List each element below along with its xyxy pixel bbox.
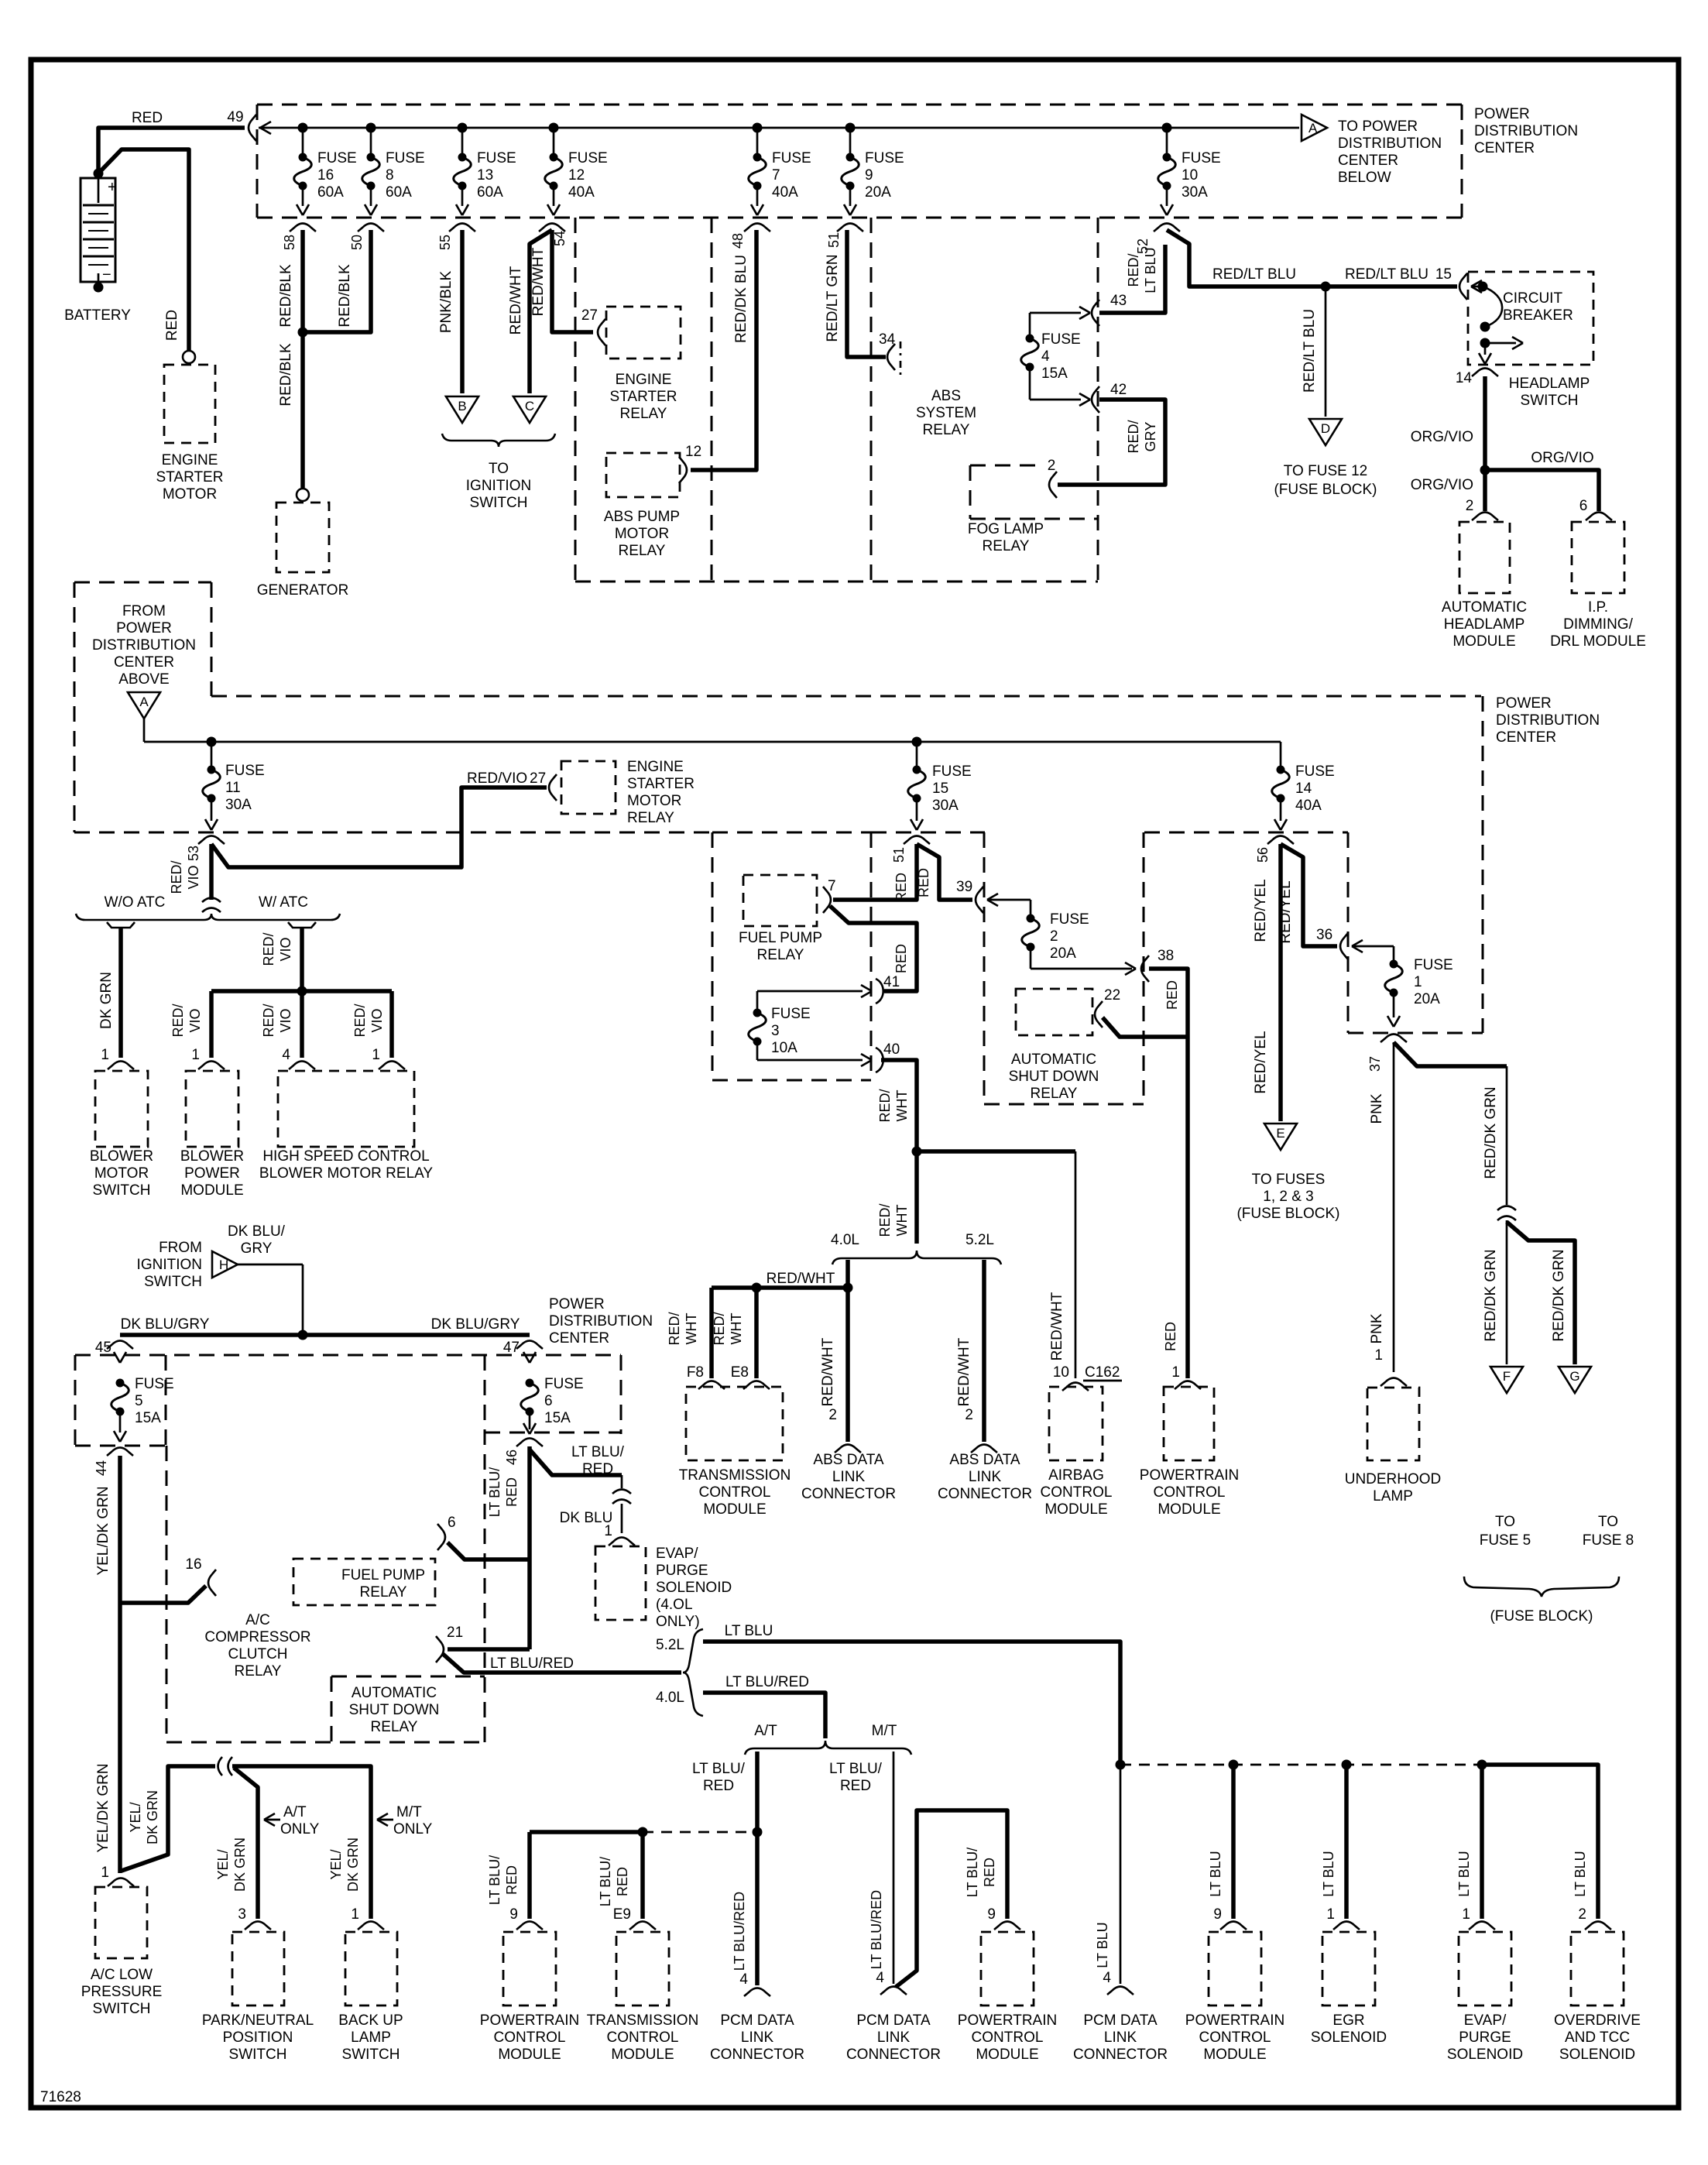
svg-text:M/T: M/T [872,1723,897,1739]
svg-text:HIGH SPEED CONTROL: HIGH SPEED CONTROL [262,1148,429,1165]
svg-text:LT BLU/RED: LT BLU/RED [869,1890,884,1969]
fuse 9 20A [849,128,852,155]
brace W/O ATC - W/ ATC split [76,914,340,920]
svg-text:15A: 15A [1041,365,1068,382]
svg-text:RED/YEL: RED/YEL [1253,1031,1269,1093]
svg-text:SOLENOID: SOLENOID [656,1580,732,1596]
wire LT BLU/RED to PCM data link connector [755,1832,760,1985]
EGR solenoid box [1322,1932,1375,2005]
wire 38 RED [1149,969,1188,1037]
svg-text:30A: 30A [225,797,252,813]
wire DK BLU/GRY from H [238,1264,303,1266]
wire 53 RED/VIO down to ATC split [209,844,214,900]
battery [81,178,115,282]
svg-text:2: 2 [1048,458,1056,474]
svg-text:CONTROL: CONTROL [699,1484,771,1501]
wire 56 RED/YEL to fuse block [1278,844,1283,1121]
node on bus at fuse 13 [458,123,468,133]
node fuse 15 tap [912,737,922,747]
svg-text:51: 51 [891,847,907,863]
svg-text:RED/YEL: RED/YEL [1253,879,1269,942]
svg-text:FUSE: FUSE [568,150,608,166]
svg-text:A: A [1308,121,1318,136]
wire RED/WHT down to engine split [914,1151,919,1244]
svg-text:TO FUSE 12: TO FUSE 12 [1284,463,1367,479]
svg-text:BATTERY: BATTERY [64,307,131,324]
svg-text:CONNECTOR: CONNECTOR [938,1486,1032,1502]
svg-text:15: 15 [1435,266,1452,283]
svg-text:PCM DATA: PCM DATA [1083,2012,1158,2029]
svg-text:CENTER: CENTER [549,1330,609,1347]
svg-text:RELAY: RELAY [620,406,667,422]
blower motor switch box [95,1071,148,1147]
wire 40 RED/WHT down [881,1060,917,1151]
power distribution center box (top) [257,104,1462,106]
svg-text:FOG LAMP: FOG LAMP [968,521,1044,537]
svg-text:FUEL PUMP: FUEL PUMP [739,930,822,946]
svg-text:DISTRIBUTION: DISTRIBUTION [1474,123,1578,139]
connector 15 [1459,273,1467,300]
svg-text:IGNITION: IGNITION [137,1257,202,1273]
connector 51 ASD relay [904,836,930,845]
svg-text:MODULE: MODULE [180,1182,243,1199]
fuse 1 20A [1390,960,1398,969]
svg-text:ORG/VIO: ORG/VIO [1411,477,1473,493]
inline connector DK BLU [612,1490,631,1494]
svg-text:WHT: WHT [894,1090,910,1122]
node on bus at fuse 8 [366,123,376,133]
label M/T ONLY with arrow [377,1813,388,1820]
fuse 6 15A [526,1379,534,1388]
node RED/WHT distribution [912,1147,922,1157]
svg-text:RED/DK GRN: RED/DK GRN [1483,1249,1499,1341]
svg-text:ENGINE: ENGINE [616,372,672,388]
svg-text:FUEL PUMP: FUEL PUMP [341,1567,425,1583]
wire LT BLU/RED to evap purge solenoid [530,1450,622,1475]
svg-text:PCM DATA: PCM DATA [720,2012,794,2029]
powertrain control module box (bottom left) [503,1932,556,2005]
wire YEL/DK GRN to park/neutral switch [234,1768,258,1919]
svg-text:2: 2 [828,1407,837,1423]
svg-text:15A: 15A [135,1410,161,1426]
svg-text:POWER: POWER [184,1165,240,1182]
svg-text:FUSE: FUSE [1182,150,1221,166]
fuse 12 40A [553,128,555,155]
svg-text:COMPRESSOR: COMPRESSOR [204,1629,310,1645]
svg-text:4: 4 [876,1970,884,1986]
svg-text:LT BLU/: LT BLU/ [965,1848,980,1897]
svg-text:EGR: EGR [1332,2012,1364,2029]
svg-text:RED/LT BLU: RED/LT BLU [1345,266,1428,283]
powertrain control module box (bottom middle) [981,1932,1034,2005]
svg-text:9: 9 [509,1906,518,1923]
svg-text:D: D [1321,421,1330,436]
svg-text:TRANSMISSION: TRANSMISSION [587,2012,699,2029]
svg-text:27: 27 [581,307,598,324]
svg-text:RED/WHT: RED/WHT [956,1337,972,1406]
battery positive node [94,169,104,179]
svg-text:ORG/VIO: ORG/VIO [1411,429,1473,445]
wire RED/WHT to TCM F8 [709,1288,714,1378]
svg-text:27: 27 [530,770,546,787]
fuse 15 30A [916,742,918,767]
svg-text:20A: 20A [1414,991,1440,1007]
triangle G [1559,1367,1591,1393]
svg-text:RELAY: RELAY [1031,1086,1078,1102]
wire RED/WHT 5.2L branch to abs data link connector [982,1260,986,1442]
overdrive and TCC solenoid box [1571,1932,1624,2005]
wire PNK to underhood lamp [1393,1042,1395,1372]
svg-text:MODULE: MODULE [1452,633,1515,650]
blower power module box [186,1071,238,1147]
node TCM link [638,1827,648,1837]
svg-text:42: 42 [1110,382,1127,398]
svg-text:WHT: WHT [684,1313,699,1345]
svg-text:BACK UP: BACK UP [338,2012,403,2029]
svg-text:RELAY: RELAY [619,543,666,559]
svg-text:RED/BLK: RED/BLK [337,264,353,328]
connector 38 [1125,962,1136,969]
svg-text:AUTOMATIC: AUTOMATIC [1442,599,1527,616]
svg-text:RED: RED [504,1865,520,1895]
svg-text:16: 16 [185,1556,201,1573]
svg-text:CONNECTOR: CONNECTOR [710,2047,804,2063]
svg-text:SHUT DOWN: SHUT DOWN [1009,1069,1099,1085]
svg-text:5.2L: 5.2L [965,1232,994,1248]
svg-text:DISTRIBUTION: DISTRIBUTION [92,637,196,654]
svg-text:7: 7 [828,878,836,894]
svg-text:FUSE: FUSE [386,150,425,166]
svg-text:40A: 40A [1295,798,1322,814]
wire LT BLU/RED 4.0L [703,1693,825,1738]
fuel pump relay box (lower) [293,1559,435,1605]
inline connector YEL/DK GRN [218,1757,223,1776]
svg-text:ENGINE: ENGINE [162,452,218,468]
connector below fuse 9 [837,224,863,232]
connector 46 [516,1439,543,1447]
svg-text:9: 9 [1213,1906,1222,1923]
node on bus at fuse 9 [845,123,856,133]
svg-text:MOTOR: MOTOR [615,526,669,542]
svg-text:20A: 20A [865,184,891,201]
engine starter motor relay box [561,761,616,814]
svg-text:POWERTRAIN: POWERTRAIN [480,2012,579,2029]
svg-text:CONTROL: CONTROL [1041,1484,1113,1501]
fuse 7 40A [756,128,759,155]
svg-text:SWITCH: SWITCH [1521,393,1579,409]
svg-text:54: 54 [552,231,568,246]
svg-text:4: 4 [1041,348,1050,365]
svg-text:FUSE: FUSE [1295,763,1335,780]
triangle B [446,396,478,423]
svg-text:(FUSE BLOCK): (FUSE BLOCK) [1274,482,1377,498]
svg-text:11: 11 [225,780,241,796]
wire LT BLU to powertrain control module 9 [1231,1765,1236,1919]
svg-text:E: E [1276,1126,1284,1141]
svg-text:FUSE: FUSE [477,150,516,166]
svg-text:RED/: RED/ [261,932,276,966]
ASD relay coil box [1016,989,1092,1035]
svg-text:ABS DATA: ABS DATA [949,1452,1020,1468]
wire to fuse 1 [1352,945,1394,948]
svg-text:22: 22 [1104,987,1120,1004]
svg-text:A/T: A/T [283,1804,307,1820]
svg-text:LT BLU: LT BLU [1208,1851,1223,1896]
svg-text:16: 16 [317,167,334,184]
fuse 3 10A circuit [757,990,863,993]
svg-text:LT BLU/: LT BLU/ [487,1467,502,1517]
svg-text:5: 5 [135,1393,143,1409]
svg-text:RED/DK BLU: RED/DK BLU [733,255,749,343]
svg-text:ABOVE: ABOVE [118,671,169,688]
svg-text:MODULE: MODULE [1203,2047,1266,2063]
svg-text:YEL/: YEL/ [128,1802,143,1832]
svg-text:FUSE: FUSE [317,150,357,166]
svg-text:LINK: LINK [1104,2029,1137,2046]
svg-text:FUSE: FUSE [135,1376,174,1392]
svg-text:A: A [139,695,149,709]
svg-text:49: 49 [227,109,243,125]
svg-text:BLOWER: BLOWER [180,1148,244,1165]
wire from fuel pump relay 7 to connector 41 [830,906,917,991]
inline connector RED/DK GRN [1497,1206,1516,1211]
svg-text:RED/DK GRN: RED/DK GRN [1483,1086,1499,1179]
wire to A/C compressor clutch relay 16 [120,1586,206,1603]
svg-text:CONTROL: CONTROL [1154,1484,1226,1501]
svg-text:IGNITION: IGNITION [466,478,531,494]
triangle connector A to power distribution center below [1302,115,1327,141]
park/neutral position switch box [232,1932,284,2005]
svg-text:MODULE: MODULE [1044,1501,1107,1518]
svg-text:TO POWER: TO POWER [1338,118,1418,135]
svg-text:RELAY: RELAY [371,1719,418,1735]
svg-text:ABS PUMP: ABS PUMP [604,509,680,525]
svg-text:ONLY): ONLY) [656,1614,700,1630]
fuse 5 15A [116,1379,125,1388]
svg-text:RED/LT GRN: RED/LT GRN [825,254,841,341]
wire 43 RED/LT BLU [1099,245,1165,313]
svg-text:9: 9 [865,167,873,184]
svg-text:1: 1 [604,1523,612,1539]
svg-text:AUTOMATIC: AUTOMATIC [352,1685,437,1701]
svg-text:RED: RED [582,1461,613,1477]
svg-text:CIRCUIT: CIRCUIT [1503,290,1562,307]
svg-text:LAMP: LAMP [1373,1488,1413,1505]
svg-text:RED: RED [916,868,931,897]
svg-text:PNK: PNK [1369,1093,1385,1124]
svg-text:4.0L: 4.0L [831,1232,859,1248]
svg-text:14: 14 [1295,781,1312,797]
svg-text:SYSTEM: SYSTEM [916,405,976,421]
svg-text:B: B [458,399,466,413]
fuse 8 60A [370,128,372,155]
triangle A from above [128,692,160,719]
svg-text:A/C: A/C [245,1612,270,1628]
svg-text:LINK: LINK [969,1469,1002,1485]
svg-text:RED: RED [893,873,909,902]
svg-text:E9: E9 [613,1906,631,1923]
svg-text:RED/: RED/ [667,1312,682,1345]
svg-text:FROM: FROM [122,603,166,619]
wire to connector 43 [1030,312,1081,314]
svg-text:DRL MODULE: DRL MODULE [1550,633,1646,650]
svg-text:RED/: RED/ [877,1203,893,1237]
svg-text:39: 39 [956,879,972,895]
wire RED battery to engine starter motor [98,149,189,351]
svg-text:10: 10 [1053,1364,1069,1381]
svg-text:FUSE: FUSE [1414,957,1453,973]
svg-text:WHT: WHT [894,1205,910,1237]
svg-text:DISTRIBUTION: DISTRIBUTION [1338,136,1442,152]
svg-text:PURGE: PURGE [656,1563,708,1579]
node LT BLU powertrain [1229,1760,1239,1770]
svg-text:21: 21 [447,1625,463,1641]
svg-text:2: 2 [1466,498,1474,514]
svg-text:12: 12 [685,444,701,460]
svg-text:1: 1 [1462,1906,1470,1923]
svg-text:LT BLU/: LT BLU/ [829,1761,883,1777]
svg-text:TO FUSES: TO FUSES [1252,1172,1326,1188]
wire RED/VIO to high speed relay pin 1 [389,991,394,1058]
svg-text:LT BLU/: LT BLU/ [571,1444,625,1460]
svg-text:TRANSMISSION: TRANSMISSION [679,1467,791,1484]
svg-text:W/ ATC: W/ ATC [259,894,308,911]
svg-text:CENTER: CENTER [114,654,174,671]
svg-text:1: 1 [101,1047,109,1063]
svg-text:RED/DK GRN: RED/DK GRN [1551,1249,1567,1341]
svg-text:RED/: RED/ [1126,420,1141,453]
svg-text:40A: 40A [568,184,595,201]
svg-text:DK GRN: DK GRN [98,972,115,1029]
svg-text:C162: C162 [1085,1364,1120,1381]
svg-text:4: 4 [282,1047,290,1063]
svg-text:10: 10 [1182,167,1198,184]
wire LT BLU/RED A/T branch [755,1752,760,1832]
svg-text:60A: 60A [317,184,344,201]
svg-text:MOTOR: MOTOR [163,486,217,503]
svg-text:YEL/: YEL/ [215,1849,231,1879]
connector below fuse 16 [290,224,316,232]
engine starter relay box [606,307,681,359]
svg-text:RED/WHT: RED/WHT [1049,1292,1065,1360]
svg-text:DISTRIBUTION: DISTRIBUTION [1496,712,1600,729]
triangle C [513,396,546,423]
svg-text:CONNECTOR: CONNECTOR [1073,2047,1168,2063]
svg-text:MODULE: MODULE [498,2047,561,2063]
svg-text:G: G [1569,1369,1579,1384]
wire LT BLU to PCM data link connector 4 [1120,1765,1122,1984]
svg-text:CONNECTOR: CONNECTOR [846,2047,941,2063]
svg-text:SOLENOID: SOLENOID [1311,2029,1387,2046]
fuse 14 40A [1280,742,1282,767]
svg-text:RED/WHT: RED/WHT [530,247,547,316]
svg-text:LT BLU/: LT BLU/ [598,1857,613,1906]
svg-text:38: 38 [1158,948,1174,964]
circuit breaker box [1468,272,1593,365]
svg-text:1: 1 [191,1047,200,1063]
svg-text:LT BLU/RED: LT BLU/RED [725,1674,809,1690]
svg-text:RED/: RED/ [352,1004,368,1037]
svg-text:RELAY: RELAY [923,422,970,438]
high speed control blower motor relay box [278,1071,414,1147]
svg-text:EVAP/: EVAP/ [1464,2012,1507,2029]
svg-text:RED/BLK: RED/BLK [278,343,294,407]
wire to fuse 2 [987,899,1031,901]
svg-text:1: 1 [351,1906,359,1923]
node LT BLU EGR [1342,1760,1352,1770]
svg-text:W/O ATC: W/O ATC [105,894,166,911]
svg-text:FROM: FROM [159,1240,202,1256]
wire DK GRN to blower motor switch [107,922,135,928]
svg-text:15: 15 [932,781,948,797]
node RED/WHT TCM tap [843,1283,853,1293]
abs pump motor relay box [606,453,680,497]
svg-text:CONTROL: CONTROL [494,2029,566,2046]
wire YEL/DK GRN branch to switches [122,1766,215,1871]
svg-text:POWERTRAIN: POWERTRAIN [958,2012,1057,2029]
connector below fuse 13 [449,224,475,232]
wire RED/WHT 4.0L branch [845,1260,850,1442]
svg-text:DK GRN: DK GRN [232,1837,248,1892]
svg-text:LINK: LINK [741,2029,774,2046]
svg-text:HEADLAMP: HEADLAMP [1509,376,1590,392]
connector below fuse 12 [539,224,565,232]
wire 53 RED/VIO to engine starter motor relay [211,787,547,867]
svg-text:RED/VIO: RED/VIO [467,770,527,787]
svg-text:36: 36 [1316,927,1332,943]
svg-text:BLOWER: BLOWER [90,1148,153,1165]
svg-text:MODULE: MODULE [611,2047,674,2063]
wire to connector 42 [1030,399,1081,401]
svg-text:POWER: POWER [1474,106,1530,122]
svg-text:FUSE: FUSE [544,1376,584,1392]
wire LT BLU/RED loop to powertrain control module [896,1810,1007,1987]
svg-text:RED/: RED/ [169,860,184,894]
svg-text:1: 1 [101,1865,109,1881]
brace 5.2L / 4.0L engine split [683,1629,703,1716]
svg-text:1: 1 [1414,974,1422,990]
fuel pump relay box [743,875,817,926]
svg-text:RED/BLK: RED/BLK [278,264,294,328]
triangle E [1264,1124,1297,1150]
svg-text:AND TCC: AND TCC [1565,2029,1630,2046]
from power distribution center above box [74,582,211,584]
svg-text:53: 53 [186,846,201,861]
svg-text:E8: E8 [731,1364,749,1381]
node DK BLU/GRY [298,1330,308,1340]
svg-text:71628: 71628 [40,2089,81,2105]
svg-text:DK BLU/GRY: DK BLU/GRY [121,1316,210,1333]
svg-text:AIRBAG: AIRBAG [1048,1467,1104,1484]
triangle H from ignition switch [212,1251,238,1278]
svg-text:46: 46 [504,1450,520,1465]
svg-text:TO: TO [1598,1514,1618,1530]
svg-text:SOLENOID: SOLENOID [1559,2047,1635,2063]
svg-text:WHT: WHT [729,1313,744,1345]
svg-text:RED: RED [1164,980,1180,1010]
triangle D [1309,419,1342,445]
wire RED/YEL to connector 36 [1281,844,1337,946]
svg-text:RED/LT BLU: RED/LT BLU [1302,309,1318,393]
node RED/WHT E8 tap [752,1283,762,1293]
brace A/T M/T split [745,1741,911,1755]
svg-text:STARTER: STARTER [156,469,224,485]
svg-text:RELAY: RELAY [757,947,804,963]
fuse 2 20A [1027,914,1035,923]
A/C low pressure switch box [95,1887,147,1958]
svg-text:STARTER: STARTER [610,389,677,405]
svg-text:LINK: LINK [877,2029,911,2046]
